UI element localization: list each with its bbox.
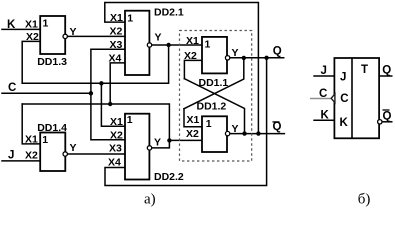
svg-text:X4: X4	[108, 157, 121, 169]
wire DD1.1 X2 stub	[184, 60, 202, 78]
wire top feedback Q-bar to DD2.1 X1	[105, 3, 259, 134]
svg-text:X2: X2	[186, 128, 199, 140]
svg-text:1: 1	[43, 18, 49, 30]
svg-text:J: J	[8, 150, 14, 162]
gate DD1.1 body	[202, 37, 227, 74]
junction node A at DD2.1 output	[166, 43, 170, 47]
svg-text:Y: Y	[155, 32, 162, 44]
svg-text:DD1.2: DD1.2	[197, 101, 227, 113]
gate DD2.1 body	[125, 11, 149, 75]
svg-text:C: C	[8, 82, 16, 94]
wire FB_K branch down to DD2.2 X1	[101, 83, 126, 126]
wire DD1.2 X1 stub	[184, 109, 202, 127]
svg-text:K: K	[340, 117, 349, 129]
wire node B up and left along FB_J to DD1.4 X1 vertical	[22, 104, 169, 140]
svg-text:X2: X2	[110, 130, 123, 142]
svg-text:X2: X2	[110, 26, 123, 38]
svg-text:X1: X1	[187, 114, 200, 126]
svg-text:Y: Y	[232, 47, 239, 59]
wire K input to DD1.3 X1	[2, 28, 40, 30]
gate DD2.2 body	[125, 114, 149, 180]
svg-text:а): а)	[144, 192, 156, 208]
svg-text:1: 1	[127, 12, 133, 24]
svg-text:K: K	[321, 110, 330, 122]
wire DD2.2 Y output to node B	[149, 140, 169, 148]
wire cross-coupling diagonal DD1.1 Y to DD1.2 X1	[184, 58, 244, 109]
junction node Q to bottom feedback	[264, 56, 268, 60]
svg-text:1: 1	[206, 118, 212, 130]
svg-text:X1: X1	[110, 12, 123, 24]
junction node Q to diagonal	[242, 56, 246, 60]
wire J input to DD1.4 X2	[2, 160, 40, 162]
svg-text:Q: Q	[273, 45, 282, 57]
wire DD1.3 Y to DD2.1 X2	[65, 35, 126, 37]
wire C branch down to DD2.2 X2	[91, 93, 126, 139]
svg-text:DD2.2: DD2.2	[154, 171, 184, 183]
overbar of flip-flop Q-bar	[383, 109, 390, 111]
svg-text:X2: X2	[25, 150, 38, 162]
wire bottom feedback Q to DD2.2 X4	[105, 58, 267, 186]
svg-text:Y: Y	[70, 142, 77, 154]
svg-text:б): б)	[358, 192, 371, 208]
svg-text:Q: Q	[383, 111, 392, 123]
svg-text:X1: X1	[110, 116, 123, 128]
wire DD1.4 Y to DD2.2 X3	[65, 153, 126, 155]
wire node B to DD1.2 X2	[169, 139, 202, 141]
junction node B at DD2.2 output	[167, 138, 171, 142]
wire DD1.4 X1 stub and vertical up to FB_J	[22, 104, 40, 144]
junction node FB_J to DD2.1 X4	[108, 102, 112, 106]
wire DD2.1 Y output to node A	[149, 44, 168, 46]
inversion circle DD1.1 output	[225, 56, 229, 60]
wire C branch up to DD2.1 X3	[91, 49, 126, 93]
svg-text:X1: X1	[186, 35, 199, 47]
gate DD1.4 body	[40, 133, 65, 172]
wire Q output of flip-flop	[379, 75, 392, 77]
svg-text:DD2.1: DD2.1	[154, 7, 184, 19]
svg-text:J: J	[321, 65, 327, 77]
dynamic input triangle on C	[331, 94, 335, 103]
junction node FB_K to DD2.2 X1	[99, 81, 103, 85]
svg-text:T: T	[361, 64, 368, 76]
inversion circle Q-bar of flip-flop	[378, 120, 382, 124]
wire C input line	[2, 92, 91, 94]
wire Q-bar output line	[228, 133, 285, 135]
overbar of Q-bar output	[273, 121, 280, 123]
gate DD1.3 body	[40, 16, 65, 54]
dashed box around RS latch DD1.1 DD1.2	[180, 31, 252, 162]
svg-text:X3: X3	[110, 39, 123, 51]
gate DD1.2 body	[202, 116, 227, 152]
svg-text:DD1.4: DD1.4	[37, 122, 67, 134]
svg-text:X1: X1	[25, 134, 38, 146]
svg-text:Q: Q	[382, 65, 391, 77]
svg-text:DD1.1: DD1.1	[199, 77, 229, 89]
svg-text:1: 1	[205, 38, 211, 50]
junction node Q-bar to top feedback	[256, 131, 260, 135]
junction node Q-bar to diagonal	[242, 131, 246, 135]
svg-text:C: C	[340, 93, 348, 105]
wire Q output line	[228, 57, 284, 59]
svg-text:1: 1	[42, 134, 48, 146]
svg-text:J: J	[340, 72, 346, 84]
wire node A down and left along FB_K to DD1.3 X2 vertical	[22, 45, 168, 83]
wire FB_J branch up to DD2.1 X4	[110, 63, 126, 104]
junction node on C line	[89, 91, 93, 95]
wire J input of flip-flop	[313, 75, 334, 77]
inversion circle DD1.3 output	[63, 34, 67, 38]
svg-text:Y: Y	[70, 26, 77, 38]
inversion circle DD2.2 output	[147, 146, 151, 150]
wire DD1.3 X2 stub and vertical down to FB_K	[22, 41, 40, 83]
inversion circle DD2.1 output	[147, 43, 151, 47]
svg-text:X1: X1	[25, 19, 38, 31]
svg-text:X2: X2	[26, 31, 39, 43]
svg-text:X3: X3	[109, 143, 122, 155]
inversion circle DD1.4 output	[63, 152, 67, 156]
svg-text:X4: X4	[109, 53, 122, 65]
inversion circle DD1.2 output	[225, 131, 229, 135]
wire node A to DD1.1 X1	[169, 44, 202, 46]
svg-text:Q: Q	[273, 121, 282, 133]
flip-flop symbol U1 body	[334, 58, 379, 138]
wire cross-coupling diagonal DD1.2 Y to DD1.1 X2	[184, 79, 244, 134]
flip-flop symbol divider line	[351, 58, 353, 138]
wire K input of flip-flop	[313, 119, 334, 121]
svg-text:X2: X2	[184, 50, 197, 62]
svg-text:1: 1	[127, 114, 133, 126]
svg-text:DD1.3: DD1.3	[37, 56, 67, 68]
svg-text:Y: Y	[154, 136, 161, 148]
svg-text:K: K	[7, 19, 16, 31]
wire Q-bar output of flip-flop	[382, 121, 392, 123]
svg-text:Y: Y	[232, 123, 239, 135]
wire C input of flip-flop (grey)	[310, 98, 331, 100]
svg-text:C: C	[319, 88, 327, 100]
